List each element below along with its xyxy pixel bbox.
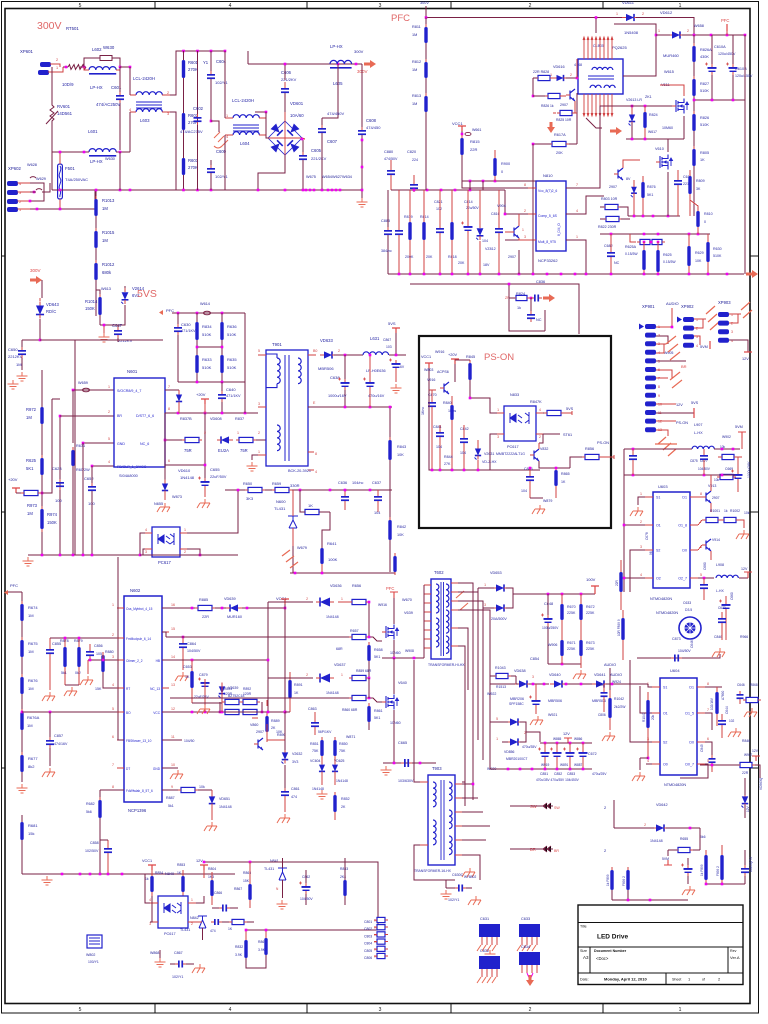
svg-text:C866: C866: [214, 891, 222, 895]
PS-ON out: [656, 420, 676, 422]
resistor R676: [20, 677, 23, 694]
svg-text:1: 1: [616, 12, 618, 16]
svg-text:C863: C863: [308, 707, 317, 711]
svg-text:V2632: V2632: [292, 752, 302, 756]
svg-text:W916: W916: [435, 350, 444, 354]
svg-text:9: 9: [171, 785, 173, 789]
svg-text:330R: 330R: [290, 483, 300, 488]
svg-text:3.9K: 3.9K: [235, 953, 243, 957]
svg-text:75R: 75R: [184, 448, 192, 453]
svg-text:F899 2: F899 2: [716, 866, 720, 876]
svg-text:0k2: 0k2: [75, 671, 81, 675]
svg-text:Ctimer_2_2: Ctimer_2_2: [126, 659, 143, 663]
resistor R900: [493, 158, 496, 176]
svg-text:1K: 1K: [294, 691, 299, 695]
U604 right caps: [705, 686, 722, 688]
svg-text:VCC1: VCC1: [421, 355, 431, 359]
svg-text:474/16V: 474/16V: [54, 742, 68, 746]
svg-text:470u/25V: 470u/25V: [592, 772, 607, 776]
top rail U603: [624, 474, 735, 476]
svg-text:R880: R880: [105, 650, 114, 654]
wire 300V top right bus: [248, 63, 362, 65]
svg-text:C623: C623: [52, 466, 62, 471]
svg-text:8: 8: [168, 407, 170, 411]
svg-text:D0_7: D0_7: [685, 763, 694, 767]
svg-text:1Knc: 1Knc: [421, 407, 425, 415]
wire 300V to N601 top: [40, 339, 163, 341]
svg-text:104: 104: [374, 511, 380, 515]
svg-text:W922: W922: [487, 692, 496, 696]
svg-text:D3.5: D3.5: [685, 608, 692, 612]
resistor R876: [641, 182, 644, 198]
resistor R674: [20, 604, 23, 621]
svg-text:3: 3: [112, 655, 114, 659]
svg-text:474/AC250V: 474/AC250V: [96, 102, 121, 107]
svg-text:510K: 510K: [227, 365, 237, 370]
svg-text:10D/9: 10D/9: [62, 82, 74, 87]
svg-text:7: 7: [658, 377, 660, 381]
svg-text:R633: R633: [202, 357, 212, 362]
svg-text:R972: R972: [26, 407, 37, 412]
svg-text:75R: 75R: [240, 448, 248, 453]
svg-text:22R: 22R: [742, 771, 749, 775]
svg-text:104/50V: 104/50V: [678, 649, 691, 653]
svg-text:10K: 10K: [397, 533, 404, 537]
cluster left vertical: [267, 602, 269, 712]
svg-text:R630: R630: [713, 247, 722, 251]
svg-text:150K: 150K: [85, 306, 95, 311]
svg-text:R843: R843: [397, 445, 406, 449]
wire N601 gnd pin: [83, 442, 114, 444]
svg-text:12V: 12V: [676, 403, 683, 407]
svg-text:8_D/4_O: 8_D/4_O: [557, 223, 561, 236]
svg-text:C646: C646: [690, 640, 694, 648]
inductor L602 LP-HX: [89, 67, 116, 70]
resistor R675: [20, 640, 23, 657]
wires IC left: [462, 181, 528, 188]
svg-text:474/450V: 474/450V: [327, 111, 344, 116]
svg-text:W630: W630: [105, 157, 115, 161]
svg-text:V904: V904: [497, 204, 506, 208]
svg-text:Y1: Y1: [203, 60, 209, 65]
R966 row: [637, 657, 710, 659]
svg-text:R676A: R676A: [27, 715, 40, 720]
svg-text:104/50V: 104/50V: [300, 897, 313, 901]
svg-text:W873: W873: [172, 495, 182, 499]
svg-text:R861: R861: [374, 709, 383, 713]
svg-text:C802: C802: [364, 927, 372, 931]
svg-text:VZ812: VZ812: [485, 247, 496, 251]
svg-text:2: 2: [570, 73, 572, 77]
resistor R815: [460, 138, 463, 155]
svg-text:2: 2: [644, 823, 646, 827]
svg-text:470u/35V: 470u/35V: [522, 745, 537, 749]
svg-text:C820: C820: [407, 150, 416, 154]
svg-text:R973: R973: [27, 503, 38, 508]
svg-text:C821: C821: [434, 200, 443, 204]
svg-text:VD608: VD608: [210, 417, 222, 421]
optocoupler PC617 bottom: [158, 896, 188, 928]
svg-text:VD616: VD616: [553, 65, 565, 69]
2907 transistor pfc: [618, 168, 623, 180]
svg-text:224: 224: [412, 158, 418, 162]
svg-text:R867: R867: [234, 887, 242, 891]
svg-text:6: 6: [707, 737, 709, 741]
wires resistor column: [176, 50, 225, 52]
svg-text:8: 8: [707, 682, 709, 686]
svg-text:R805: R805: [700, 151, 709, 155]
svg-text:12: 12: [658, 420, 662, 424]
cap bank C851 C852 C853 C672: [541, 752, 550, 754]
svg-text:LCL-2420H: LCL-2420H: [232, 98, 254, 103]
svg-text:1: 1: [112, 603, 114, 607]
svg-text:102: 102: [729, 719, 735, 723]
svg-text:+20V: +20V: [196, 392, 206, 397]
svg-text:104: 104: [460, 451, 466, 455]
svg-text:V913: V913: [708, 484, 716, 488]
svg-text:GND: GND: [117, 442, 125, 446]
resistor R811: [425, 18, 427, 28]
svg-text:R1001: R1001: [710, 509, 720, 513]
svg-text:TL431: TL431: [264, 867, 274, 871]
svg-text:PS-ON: PS-ON: [484, 352, 514, 363]
svg-text:N601: N601: [127, 369, 138, 374]
svg-text:2k2/2W: 2k2/2W: [614, 705, 626, 709]
svg-text:1K: 1K: [177, 871, 182, 875]
svg-text:15k: 15k: [28, 831, 34, 836]
svg-text:8: 8: [524, 183, 526, 187]
svg-text:10k: 10k: [744, 511, 750, 515]
svg-text:6: 6: [168, 459, 170, 463]
svg-text:10R F899 9: 10R F899 9: [617, 619, 621, 636]
svg-text:RV601: RV601: [57, 104, 71, 109]
svg-text:C605: C605: [311, 148, 322, 153]
svg-text:PC617: PC617: [158, 560, 171, 565]
svg-text:3: 3: [484, 603, 486, 607]
svg-text:NC_6: NC_6: [140, 442, 149, 446]
svg-text:MUR160: MUR160: [227, 615, 242, 619]
svg-text:10N60: 10N60: [390, 721, 401, 725]
resistor R818: [450, 222, 453, 240]
resistor R885: [198, 605, 212, 610]
svg-text:3: 3: [149, 922, 151, 926]
pin10 gnd: [162, 767, 178, 769]
svg-text:1: 1: [522, 228, 524, 232]
transformer bottom pins: [583, 94, 613, 116]
svg-text:R1047: R1047: [642, 712, 646, 722]
svg-text:221: 221: [683, 182, 689, 186]
svg-text:PFC: PFC: [10, 583, 18, 588]
svg-text:120u/450V: 120u/450V: [735, 74, 753, 78]
svg-text:R834: R834: [202, 324, 212, 329]
svg-text:1: 1: [497, 408, 499, 412]
svg-text:R825 10R: R825 10R: [556, 118, 572, 122]
svg-text:S2: S2: [663, 741, 667, 745]
svg-text:C633: C633: [683, 601, 691, 605]
svg-text:C660: C660: [730, 592, 734, 600]
svg-text:12V: 12V: [746, 805, 750, 812]
svg-text:1M: 1M: [16, 362, 22, 367]
svg-text:R1013: R1013: [102, 198, 115, 203]
svg-text:1: 1: [258, 450, 260, 454]
svg-text:C816: C816: [491, 212, 500, 216]
svg-text:W658: W658: [694, 24, 704, 28]
svg-text:1: 1: [341, 597, 343, 601]
fan symbol C673: [679, 617, 701, 639]
svg-text:0: 0: [501, 170, 503, 174]
svg-text:1: 1: [679, 3, 682, 9]
svg-text:R617A: R617A: [554, 133, 566, 137]
svg-text:N840: N840: [165, 872, 174, 876]
HB wire pin14: [162, 659, 268, 661]
svg-text:22R: 22R: [202, 615, 209, 619]
svg-text:3: 3: [379, 1007, 382, 1013]
resistor R865: [554, 470, 557, 486]
svg-text:FdWfwlab_8_5T_6: FdWfwlab_8_5T_6: [126, 789, 153, 793]
svg-text:W670: W670: [402, 598, 412, 602]
svg-text:474/450: 474/450: [366, 125, 381, 130]
svg-text:R1014: R1014: [85, 299, 98, 304]
svg-text:100V: 100V: [586, 577, 596, 582]
svg-text:10K: 10K: [276, 730, 283, 734]
svg-text:R852: R852: [341, 797, 350, 801]
svg-text:510K: 510K: [227, 332, 237, 337]
svg-text:RT: RT: [126, 687, 130, 691]
svg-text:1N5408: 1N5408: [624, 30, 639, 35]
svg-text:104: 104: [436, 445, 442, 449]
svg-text:N600: N600: [276, 499, 286, 504]
T602 secondary wires: [458, 583, 473, 800]
svg-text:O1_8: O1_8: [678, 524, 687, 528]
salmon arrow xfmr: [610, 127, 622, 135]
svg-text:0.15/3W: 0.15/3W: [625, 252, 638, 256]
svg-text:102: 102: [436, 207, 442, 211]
svg-text:NCP1396: NCP1396: [128, 808, 147, 813]
svg-text:4: 4: [640, 573, 642, 577]
svg-text:C607: C607: [327, 139, 338, 144]
svg-text:1: 1: [658, 29, 660, 33]
bus 190: [391, 189, 505, 191]
svg-text:102/Y1: 102/Y1: [215, 174, 228, 179]
svg-text:12V: 12V: [196, 859, 203, 863]
svg-text:PQ2625: PQ2625: [612, 45, 627, 50]
resistor R809: [688, 176, 691, 194]
svg-text:1N4148: 1N4148: [650, 839, 663, 843]
svg-text:1k F899: 1k F899: [606, 874, 610, 886]
svg-text:R853: R853: [340, 867, 348, 871]
svg-text:N842: N842: [190, 916, 199, 920]
svg-text:Rev: Rev: [730, 949, 737, 953]
cap extra: [395, 230, 403, 232]
svg-text:V832: V832: [540, 447, 548, 451]
svg-text:10K: 10K: [695, 259, 702, 263]
svg-text:2907: 2907: [256, 730, 264, 734]
svg-text:VD653: VD653: [490, 571, 502, 575]
svg-text:1: 1: [108, 385, 110, 389]
resistor R852: [333, 795, 336, 812]
resistor R658 5K1: [367, 645, 370, 661]
svg-text:C875: C875: [690, 459, 698, 463]
svg-text:C644: C644: [725, 706, 729, 714]
cap C-misc electro: [684, 868, 693, 870]
svg-text:104: 104: [482, 239, 488, 243]
svg-text:105: 105: [96, 652, 102, 656]
svg-text:R671: R671: [567, 641, 576, 645]
svg-text:C846: C846: [714, 635, 722, 639]
svg-text:8V: 8V: [626, 177, 631, 181]
svg-text:R809: R809: [696, 179, 705, 183]
svg-text:F501: F501: [65, 166, 75, 171]
svg-text:102/Y1: 102/Y1: [172, 975, 183, 979]
resistor R834: [195, 322, 198, 340]
svg-text:R891: R891: [294, 683, 303, 687]
svg-text:AUDIO: AUDIO: [604, 663, 616, 667]
svg-text:R859 68R: R859 68R: [356, 669, 372, 673]
svg-text:5k1: 5k1: [168, 804, 174, 808]
svg-text:R631: R631: [76, 444, 85, 448]
wire pin3: [88, 659, 124, 661]
12V rectifier diodes VD856: [510, 718, 518, 725]
svg-text:TRANSFORMER-16-HX: TRANSFORMER-16-HX: [414, 869, 452, 873]
svg-text:300V: 300V: [420, 1, 429, 5]
wire BO divider to pin5: [22, 711, 124, 713]
svg-text:MBR206: MBR206: [510, 697, 524, 701]
svg-text:R810: R810: [704, 212, 713, 216]
svg-text:L602: L602: [92, 47, 102, 52]
svg-text:R966: R966: [740, 635, 748, 639]
svg-text:C648: C648: [544, 602, 553, 606]
svg-text:10k: 10k: [714, 478, 720, 482]
svg-text:PC617: PC617: [164, 932, 176, 936]
feedback row resistors: [225, 489, 392, 491]
svg-text:1: 1: [496, 737, 498, 741]
gate rail R860: [170, 697, 351, 699]
svg-text:Comp_5_6S: Comp_5_6S: [538, 214, 558, 218]
svg-text:VD638: VD638: [514, 669, 526, 673]
svg-text:150K: 150K: [47, 520, 57, 525]
svg-text:1: 1: [226, 114, 228, 118]
ground bottom left bus: [28, 554, 238, 556]
svg-text:3: 3: [145, 550, 147, 554]
U604 input wires: [648, 684, 652, 687]
svg-text:300V: 300V: [354, 49, 364, 54]
resistor R629: [687, 246, 690, 266]
svg-text:T901: T901: [272, 342, 282, 347]
svg-text:C673: C673: [718, 606, 726, 610]
svg-text:L907: L907: [694, 423, 702, 427]
svg-text:BZT52C18: BZT52C18: [228, 694, 245, 698]
zener V2632: [282, 752, 288, 759]
pin12 VCC wire: [162, 711, 285, 713]
svg-text:V916: V916: [427, 378, 435, 382]
resistors R670 R672: [560, 604, 563, 620]
svg-text:W865: W865: [553, 737, 562, 741]
svg-text:Sheet: Sheet: [672, 978, 681, 982]
svg-text:104/50: 104/50: [184, 739, 194, 743]
resistor R824p: [643, 112, 646, 128]
bottom bus wire: [22, 873, 235, 875]
svg-text:D1: D1: [689, 686, 694, 690]
svg-text:471/1KV: 471/1KV: [226, 394, 241, 398]
pfc mid bus: [628, 215, 680, 217]
svg-text:3: 3: [640, 545, 642, 549]
resistor R603: [182, 158, 185, 175]
svg-text:2: 2: [204, 431, 206, 435]
svg-text:1M: 1M: [102, 206, 108, 211]
svg-text:1M: 1M: [27, 723, 33, 728]
svg-text:1M: 1M: [412, 102, 417, 106]
svg-text:L-HX: L-HX: [694, 431, 703, 435]
HB node: [382, 657, 424, 659]
wire vcc row: [462, 180, 536, 182]
svg-text:D0: D0: [689, 741, 694, 745]
svg-text:5: 5: [112, 707, 114, 711]
svg-text:C602: C602: [193, 106, 204, 111]
svg-text:102/50V: 102/50V: [85, 849, 99, 853]
svg-text:R868: R868: [750, 683, 758, 687]
svg-text:PFC: PFC: [166, 308, 174, 313]
svg-text:C610A: C610A: [714, 45, 726, 49]
svg-text:V914: V914: [712, 538, 720, 542]
resistor R676A: [20, 712, 23, 730]
svg-text:R659: R659: [272, 482, 281, 486]
border zone ticks: [154, 2, 156, 1014]
svg-text:2: 2: [529, 3, 532, 9]
svg-text:1M: 1M: [28, 613, 34, 618]
U603 left bus: [623, 449, 625, 592]
svg-text:W661: W661: [472, 128, 481, 132]
cap C806: [601, 692, 608, 694]
svg-text:7: 7: [576, 183, 578, 187]
svg-text:R815: R815: [470, 139, 480, 144]
svg-text:R837B: R837B: [180, 417, 192, 421]
resistor R889: [265, 716, 268, 732]
T603 primary wires: [462, 782, 465, 806]
optocoupler PC617 ps-on: [504, 406, 536, 441]
svg-text:5k6: 5k6: [700, 835, 706, 839]
svg-text:5VS: 5VS: [691, 401, 699, 405]
resistor R843: [389, 407, 391, 440]
svg-text:W: W: [374, 947, 377, 951]
svg-text:5: 5: [79, 3, 82, 9]
svg-text:RT501: RT501: [66, 26, 79, 31]
svg-text:1M: 1M: [412, 68, 417, 72]
svg-text:C630: C630: [181, 322, 191, 327]
svg-text:MUR460: MUR460: [663, 53, 680, 58]
svg-text:W76B02: W76B02: [464, 875, 476, 879]
svg-text:W924: W924: [612, 680, 621, 684]
svg-text:V860: V860: [250, 723, 258, 727]
svg-text:5VS: 5VS: [566, 407, 574, 411]
svg-text:510K: 510K: [713, 254, 722, 258]
svg-text:VD651: VD651: [219, 797, 230, 801]
12V out: [656, 403, 676, 405]
resistor R-rail: [393, 556, 396, 572]
capacitor C603 Y1: [207, 168, 215, 170]
svg-text:LP-HX: LP-HX: [90, 159, 103, 164]
capacitor C601: [116, 95, 124, 97]
svg-text:HB: HB: [156, 659, 160, 663]
svg-text:R844: R844: [444, 455, 453, 459]
svg-text:R656: R656: [352, 584, 361, 588]
svg-text:C861: C861: [291, 787, 300, 791]
right bottom pills: [704, 855, 707, 880]
svg-text:225K: 225K: [586, 647, 595, 651]
svg-text:4: 4: [129, 108, 131, 112]
spark gap C600: [214, 132, 228, 148]
svg-text:4: 4: [149, 898, 151, 902]
svg-text:R625A: R625A: [625, 245, 637, 249]
